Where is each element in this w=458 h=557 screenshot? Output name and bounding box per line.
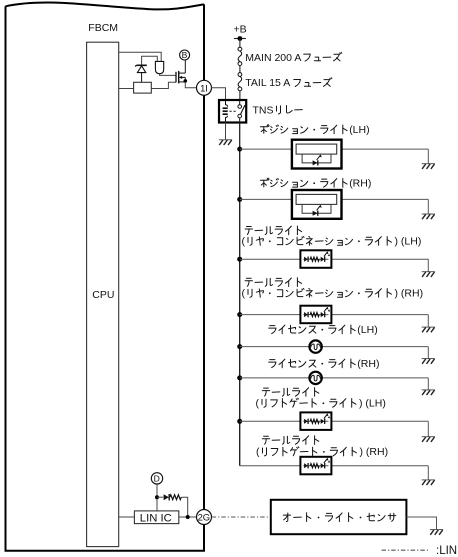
ground (liftgate LH) xyxy=(422,436,435,438)
svg-text:) (LH): ) (LH) xyxy=(359,398,386,410)
resistor R1 (box style) xyxy=(134,82,152,93)
junction bus / license LH xyxy=(237,344,242,349)
ground (auto light sensor) xyxy=(430,529,443,531)
wire bus corner to liftgate RH xyxy=(240,465,301,467)
junction bus / position LH xyxy=(237,147,242,152)
svg-text:LIN IC: LIN IC xyxy=(140,512,172,524)
MOSFET Q1 (p-channel driver) xyxy=(176,60,185,83)
svg-text:) (RH): ) (RH) xyxy=(360,446,389,458)
wire between fuses xyxy=(239,66,241,73)
diode D2 (LIN pull-up) xyxy=(157,496,163,498)
tail light (liftgate) RH LED module xyxy=(300,457,331,475)
main tail-lamp feed bus xyxy=(239,149,241,466)
wire bus to position LH lamp xyxy=(240,148,296,150)
terminal B circle xyxy=(180,50,190,60)
ground (tail RH) xyxy=(422,326,435,328)
svg-text:) (RH): ) (RH) xyxy=(395,288,424,300)
label position light RH xyxy=(260,178,269,187)
wire bus to tail RH xyxy=(240,314,301,316)
wire bus to ground drop (license RH) xyxy=(240,377,429,379)
svg-text:(RH): (RH) xyxy=(357,358,379,370)
svg-text:(: ( xyxy=(242,288,246,300)
wire liftgate LH to ground drop xyxy=(331,420,428,422)
svg-text:MAIN 200 A: MAIN 200 A xyxy=(245,52,301,64)
wire Q1 source to connector 1I xyxy=(185,82,196,88)
svg-text:CPU: CPU xyxy=(92,289,114,301)
junction D node xyxy=(155,495,159,499)
wire bus to liftgate LH xyxy=(240,420,301,422)
LIN bus line (dash-dot) 2G to sensor xyxy=(212,516,271,518)
TNS relay contact linkage (dashed) xyxy=(230,110,237,112)
connector pin 2G xyxy=(197,510,212,525)
wire relay switch to bus xyxy=(239,123,241,150)
ground (license RH) xyxy=(422,389,435,391)
junction Q1 source/body xyxy=(184,79,188,83)
svg-text:1I: 1I xyxy=(200,82,208,93)
svg-text:(LH): (LH) xyxy=(357,324,377,336)
position light LH LED module xyxy=(292,140,342,169)
tail light RH LED module xyxy=(300,306,331,324)
svg-text:) (LH): ) (LH) xyxy=(395,236,422,248)
wire bus to tail LH xyxy=(240,258,301,260)
junction bus / license RH xyxy=(237,375,242,380)
svg-text:2G: 2G xyxy=(198,512,211,523)
wire tail RH to ground drop xyxy=(331,314,428,316)
junction bus / tail RH xyxy=(237,312,242,317)
wire LIN IC to connector 2G xyxy=(179,516,197,518)
wire CPU to LIN IC xyxy=(119,516,135,518)
svg-text:(: ( xyxy=(256,446,260,458)
svg-text:FBCM: FBCM xyxy=(88,22,118,34)
wire D to LIN node xyxy=(156,484,158,511)
svg-text:(: ( xyxy=(256,398,260,410)
ground (position RH) xyxy=(422,213,435,215)
LIN legend dash-dot sample xyxy=(382,549,430,551)
fuse MAIN 200A xyxy=(238,47,242,65)
svg-text:TAIL 15 A: TAIL 15 A xyxy=(245,77,290,89)
CPU block xyxy=(87,42,119,546)
wire liftgate RH to ground drop xyxy=(331,465,428,467)
junction LIN IC output xyxy=(186,515,190,519)
wire CPU to charge-pump (upper) xyxy=(119,52,162,61)
FBCM module box (torn-top outline) xyxy=(5,2,206,550)
wire tail LH to ground drop xyxy=(331,258,428,260)
fuse TAIL 15A xyxy=(238,73,242,91)
wire position LH lamp to ground drop xyxy=(337,148,429,150)
svg-text:(RH): (RH) xyxy=(349,178,371,190)
label tail light (rear combination) RH line1 xyxy=(245,278,252,286)
label license light RH xyxy=(269,360,276,368)
junction bus / position RH xyxy=(237,197,242,202)
wire bus to ground drop (license LH) xyxy=(240,346,429,348)
wire R2 to LIN line xyxy=(181,497,187,517)
label tail light (liftgate) RH line1 xyxy=(262,436,269,444)
wire 1I to TNS relay coil xyxy=(212,88,226,100)
label position light LH xyxy=(260,125,269,134)
TNS relay coil xyxy=(226,100,228,107)
license light LH bulb xyxy=(309,340,321,352)
svg-text:(LH): (LH) xyxy=(349,124,369,136)
ground (relay coil) xyxy=(219,139,232,141)
wire CPU to resistor R1 xyxy=(119,88,134,90)
zener diode D1 top wire xyxy=(142,56,158,65)
label auto light sensor xyxy=(283,513,290,522)
tail light LH LED module xyxy=(300,250,331,267)
svg-text:B: B xyxy=(182,50,188,60)
svg-text::LIN: :LIN xyxy=(436,545,457,557)
zener diode D1 xyxy=(135,65,147,82)
label tail light (liftgate) LH line1 xyxy=(262,388,269,396)
wire +B to MAIN fuse xyxy=(239,39,241,48)
wire position RH lamp to ground drop xyxy=(337,198,429,200)
svg-text:+B: +B xyxy=(234,24,247,36)
ground (license LH) xyxy=(422,358,435,360)
svg-text:TNS: TNS xyxy=(253,104,274,116)
junction bus / liftgate LH xyxy=(237,419,242,424)
TNS relay switch xyxy=(239,100,241,105)
junction bus / tail LH xyxy=(237,257,242,262)
label tail light (rear combination) LH line1 xyxy=(245,227,252,235)
position light RH LED module xyxy=(292,190,342,219)
ground (position LH) xyxy=(422,163,435,165)
ground (tail LH) xyxy=(422,271,435,273)
connector pin 1I xyxy=(197,80,212,95)
TNS relay box xyxy=(219,100,246,123)
label license light LH xyxy=(269,326,276,334)
wire relay coil to ground xyxy=(225,123,227,140)
+B terminal junction xyxy=(234,38,246,40)
wire sensor to ground drop xyxy=(406,517,436,529)
wire bus to position RH lamp xyxy=(240,198,296,200)
svg-text:(: ( xyxy=(242,236,246,248)
license light RH bulb xyxy=(309,372,321,384)
tail light (liftgate) LH LED module xyxy=(300,412,331,430)
svg-text:D: D xyxy=(154,474,160,484)
charge-pump pouch component xyxy=(155,61,163,73)
wire TAIL fuse to relay switch xyxy=(239,91,241,100)
resistor R2 (LIN pull-up) xyxy=(170,495,181,500)
auto light sensor box xyxy=(271,500,407,534)
ground (liftgate RH) xyxy=(422,479,435,481)
LIN IC block xyxy=(134,511,178,524)
wire pouch to gate xyxy=(160,74,176,76)
terminal D circle xyxy=(151,473,162,484)
wire R1 to gate xyxy=(151,82,176,88)
